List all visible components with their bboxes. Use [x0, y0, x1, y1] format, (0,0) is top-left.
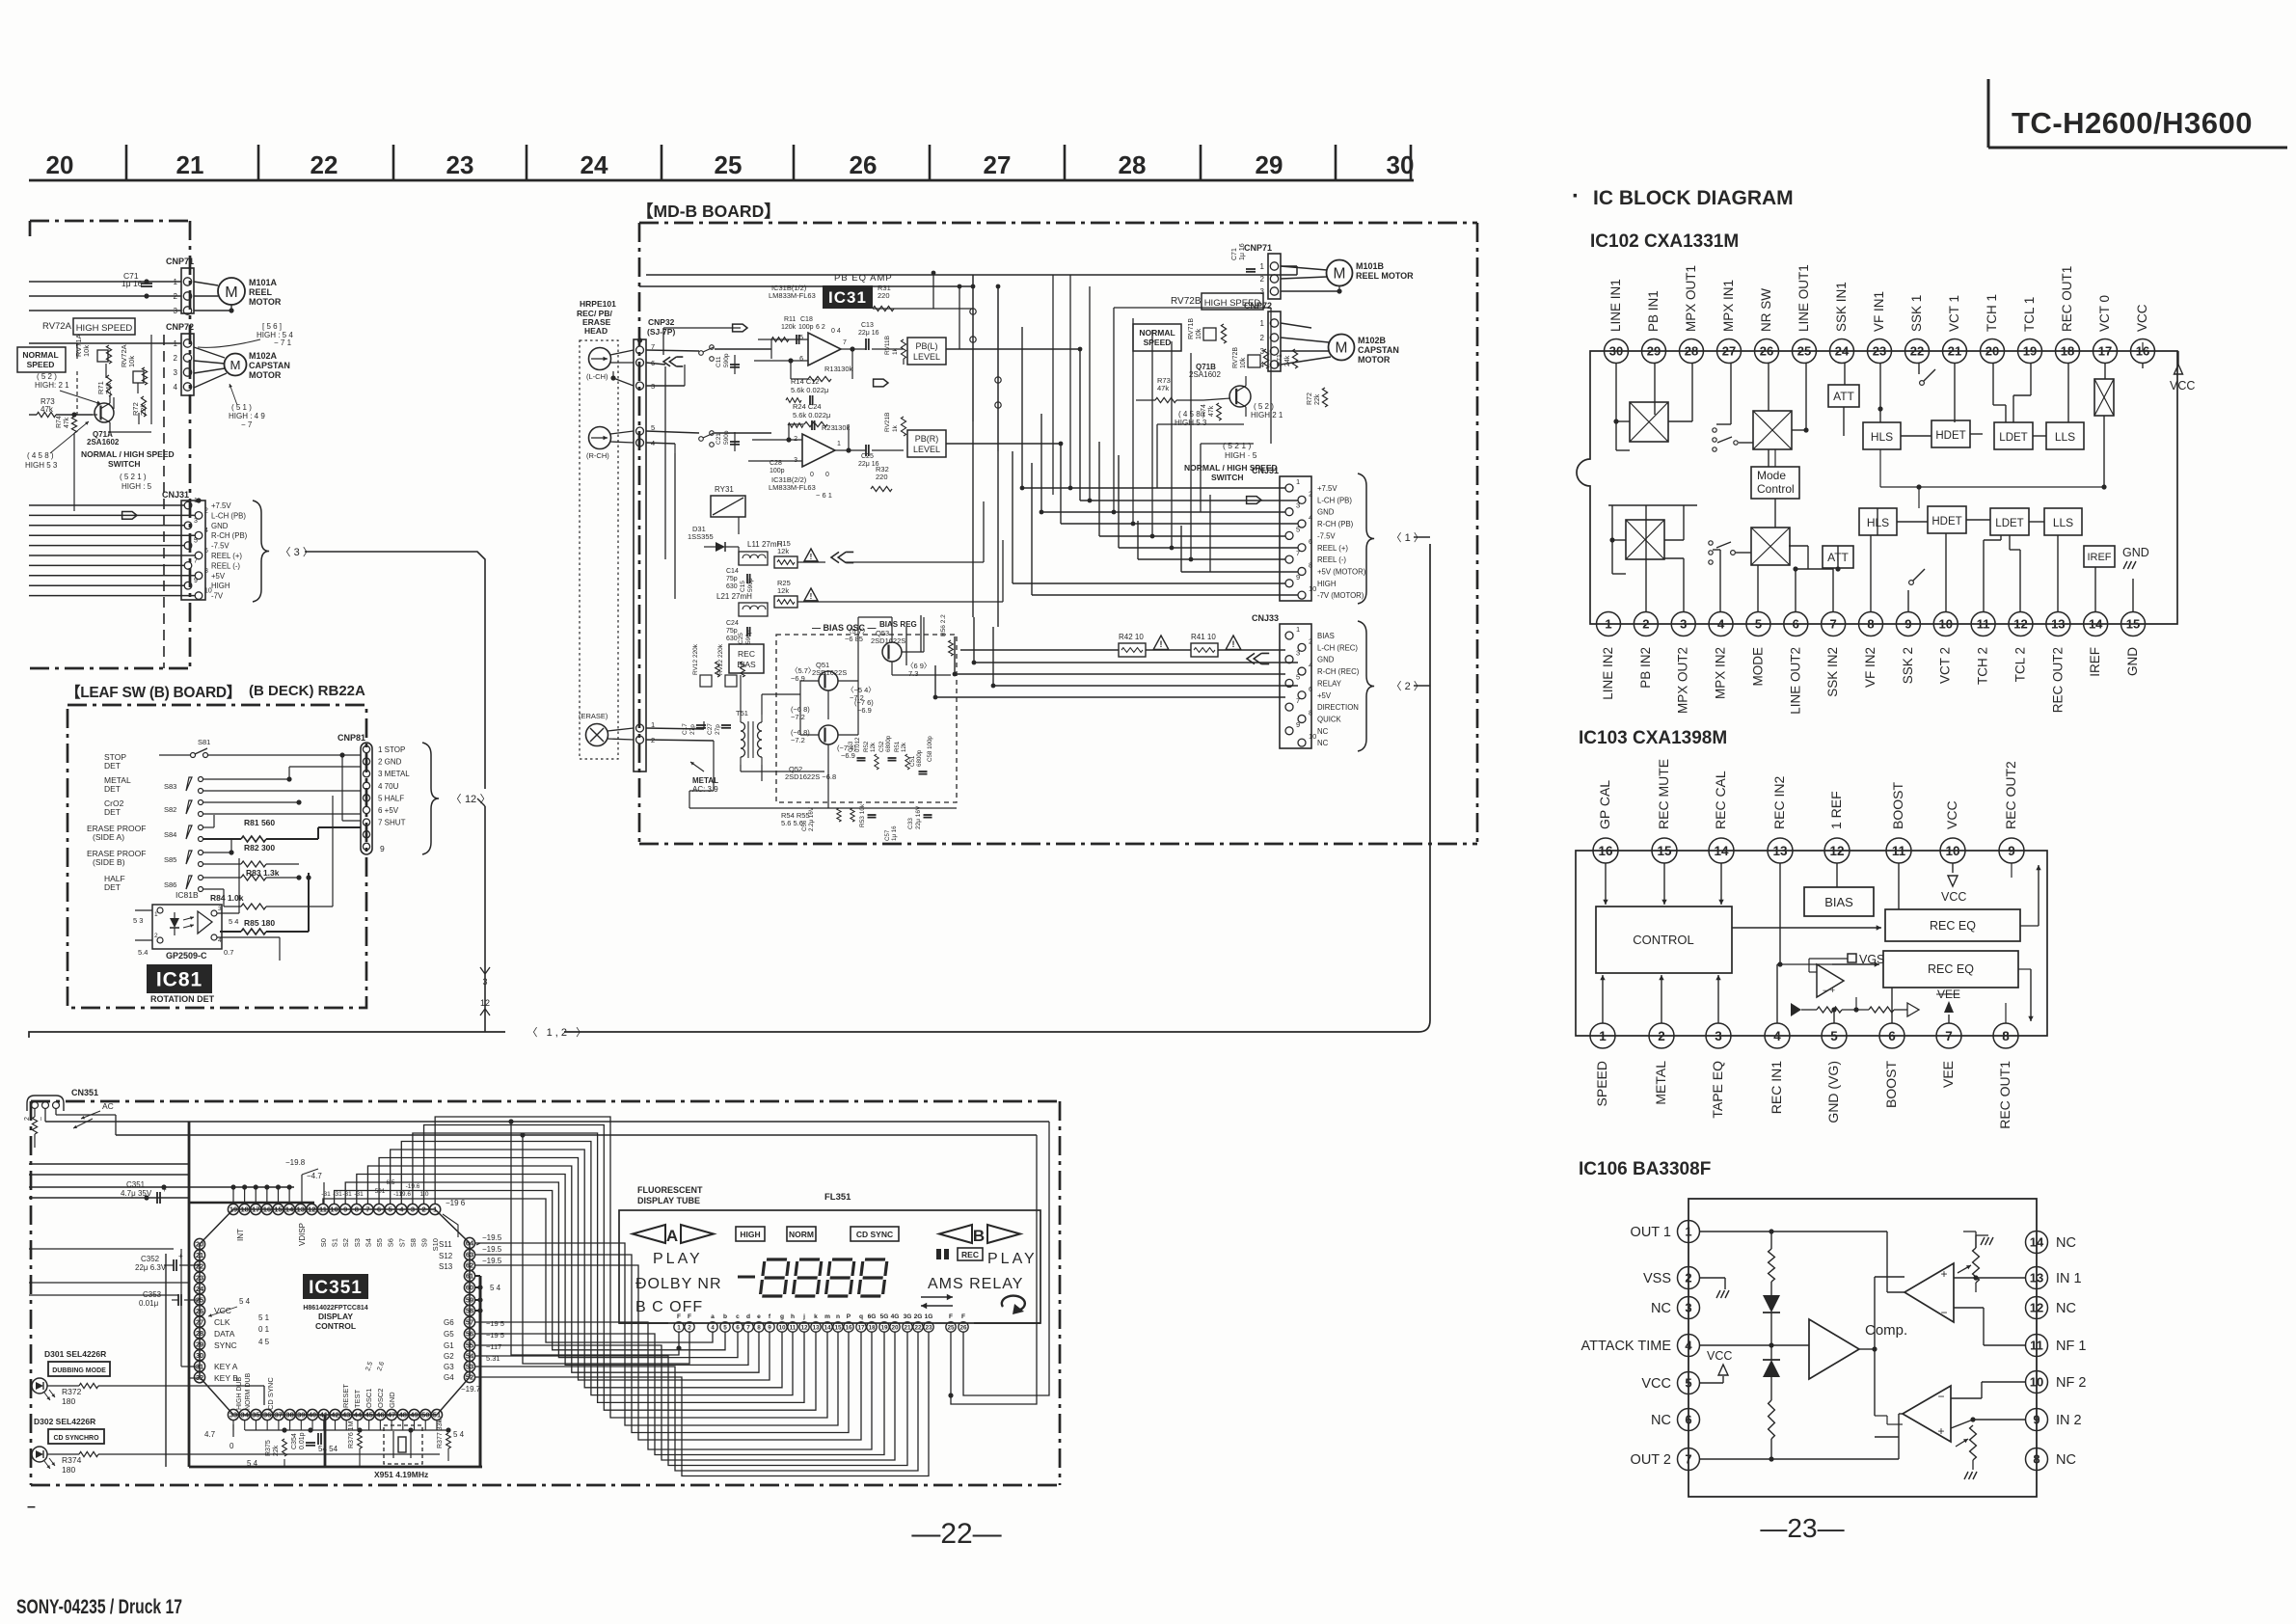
svg-text:35: 35 — [252, 1411, 259, 1420]
svg-text:2: 2 — [1685, 1271, 1691, 1286]
svg-text:L21 27mH: L21 27mH — [716, 592, 752, 601]
svg-text:CNP72: CNP72 — [1244, 301, 1272, 311]
svg-text:CNP71: CNP71 — [166, 257, 194, 266]
svg-text:25: 25 — [947, 1325, 955, 1332]
svg-text:M: M — [230, 358, 240, 372]
svg-text:VCC: VCC — [1641, 1376, 1671, 1392]
IC102 pin 9 — [1896, 612, 1920, 636]
svg-text:3: 3 — [1680, 617, 1687, 632]
IC351 pin 60 — [464, 1282, 474, 1292]
svg-text:2: 2 — [1309, 489, 1312, 498]
IC106 pin 2 — [1678, 1267, 1700, 1289]
svg-text:RY31: RY31 — [715, 485, 734, 494]
svg-text:48: 48 — [399, 1411, 407, 1420]
svg-text:11: 11 — [1977, 617, 1990, 632]
svg-text:C14: C14 — [726, 568, 739, 575]
svg-text:11: 11 — [319, 1205, 327, 1214]
IC351 pin 46 — [375, 1409, 386, 1420]
svg-text:C21: C21 — [716, 433, 722, 445]
IC102 pin 30 — [1605, 339, 1629, 364]
svg-text:−: − — [1937, 1390, 1944, 1403]
svg-text:28: 28 — [196, 1329, 203, 1338]
svg-text:− 6 1: − 6 1 — [816, 491, 832, 500]
IC351 pin 59 — [464, 1294, 474, 1305]
svg-text:63: 63 — [466, 1251, 473, 1259]
svg-text:−117: −117 — [486, 1342, 501, 1351]
svg-text:S9: S9 — [420, 1238, 429, 1247]
svg-text:R11: R11 — [784, 316, 796, 323]
IC351 pin 62 — [464, 1259, 474, 1270]
IC106 VSS ground — [1699, 1277, 1725, 1279]
svg-text:1 REF: 1 REF — [1828, 791, 1844, 829]
long bus wire <1,2> — [29, 1032, 505, 1038]
svg-text:4: 4 — [711, 1325, 715, 1332]
svg-text:S3: S3 — [353, 1238, 362, 1247]
wires from keys — [264, 1404, 270, 1406]
IC102 HLS block 1 — [1863, 422, 1901, 449]
bias section wires — [738, 547, 740, 565]
svg-text:− 7 1: − 7 1 — [274, 338, 292, 347]
svg-text:( 5 2 1 ): ( 5 2 1 ) — [120, 473, 147, 481]
svg-text:0.01p: 0.01p — [299, 1432, 306, 1449]
IC106 pin 9 — [2026, 1409, 2048, 1431]
svg-text:23: 23 — [1873, 344, 1886, 359]
svg-text:CD SYNCHRO: CD SYNCHRO — [53, 1435, 99, 1442]
svg-text:HIGH: HIGH — [1317, 580, 1337, 588]
svg-text:24: 24 — [1835, 344, 1850, 359]
svg-text:HIGH 5 3: HIGH 5 3 — [25, 461, 58, 470]
FL351 CD SYNC box — [851, 1227, 899, 1241]
svg-text:6: 6 — [204, 548, 208, 555]
svg-text:PB IN1: PB IN1 — [1646, 290, 1661, 332]
svg-text:27: 27 — [1722, 344, 1736, 359]
svg-text:−6 85: −6 85 — [845, 635, 863, 643]
svg-text:100p: 100p — [798, 324, 814, 331]
svg-text:X951 4.19MHz: X951 4.19MHz — [374, 1470, 428, 1479]
svg-text:5.6 5.6: 5.6 5.6 — [781, 819, 803, 827]
svg-text:27: 27 — [984, 150, 1012, 179]
IC103 gain slider — [1791, 1003, 1801, 1016]
svg-text:33: 33 — [230, 1411, 237, 1420]
svg-text:8: 8 — [1309, 560, 1312, 569]
svg-text:5.4: 5.4 — [138, 948, 148, 957]
svg-text:A: A — [666, 1227, 678, 1245]
svg-text:SSK 2: SSK 2 — [1901, 647, 1915, 684]
IC103 pin 15 — [1652, 838, 1677, 863]
svg-text:23: 23 — [446, 150, 474, 179]
svg-text:R41 10: R41 10 — [1191, 633, 1216, 641]
svg-text:OSC2: OSC2 — [376, 1389, 385, 1408]
svg-text:C24: C24 — [726, 620, 739, 627]
svg-text:+: + — [1937, 1424, 1944, 1438]
svg-text:62: 62 — [466, 1261, 473, 1270]
svg-text:8: 8 — [355, 1205, 359, 1214]
svg-text:12: 12 — [465, 794, 476, 805]
svg-text:( 4 5 8 ): ( 4 5 8 ) — [1178, 410, 1205, 419]
svg-text:4: 4 — [1685, 1339, 1692, 1353]
svg-text:14: 14 — [824, 1325, 831, 1332]
svg-text:S5: S5 — [375, 1238, 384, 1247]
IC102 ATT block 2 — [1823, 546, 1853, 568]
brace <2> — [1358, 621, 1374, 751]
svg-text:6: 6 — [1793, 617, 1799, 632]
svg-text:C53: C53 — [848, 741, 854, 752]
svg-text:130k: 130k — [834, 423, 851, 432]
svg-text:2: 2 — [1260, 275, 1265, 284]
IC102 pin 18 — [2056, 339, 2080, 364]
svg-text:GND: GND — [388, 1392, 396, 1408]
svg-text:-119.6: -119.6 — [393, 1191, 411, 1198]
vertical bus x1009 — [972, 275, 974, 421]
IC106 pin 12 — [2026, 1297, 2048, 1319]
svg-text:NORMAL: NORMAL — [22, 350, 58, 360]
IC351 pin 22 — [194, 1260, 204, 1271]
svg-text:S85: S85 — [164, 855, 176, 864]
svg-text:1: 1 — [837, 441, 841, 447]
IC351 pin 3 — [407, 1204, 418, 1214]
IC102 pin 26 — [1755, 339, 1779, 364]
IC102 body outline — [1577, 351, 1616, 624]
FL351 HIGH box — [736, 1227, 765, 1241]
svg-text:METAL: METAL — [1653, 1061, 1668, 1105]
svg-text:1: 1 — [677, 1325, 681, 1332]
IC106 diode D-a — [1770, 1282, 1772, 1295]
svg-text:4 70U: 4 70U — [378, 782, 399, 791]
IC102 pin 3 — [1671, 612, 1695, 636]
svg-text:〈: 〈 — [1391, 531, 1402, 544]
svg-text:S12: S12 — [439, 1252, 453, 1260]
svg-text:7.3: 7.3 — [908, 669, 918, 678]
IC102 pin 14 — [2084, 612, 2108, 636]
svg-text:10: 10 — [1945, 844, 1959, 858]
IC106 pin 5 — [1678, 1372, 1700, 1394]
IC106 pin4 wire — [1699, 1344, 1771, 1346]
svg-text:c: c — [736, 1313, 740, 1320]
svg-text:REEL (-): REEL (-) — [1317, 555, 1346, 564]
svg-text:Control: Control — [1757, 482, 1795, 496]
left edge risers from CNP32 — [664, 366, 666, 559]
svg-text:CNP72: CNP72 — [166, 322, 194, 332]
svg-text:TCH 2: TCH 2 — [1976, 647, 1990, 685]
svg-text:36: 36 — [263, 1411, 271, 1420]
FL351 loop arrow — [1002, 1296, 1025, 1310]
svg-text:12: 12 — [800, 1325, 808, 1332]
svg-text:12: 12 — [480, 998, 490, 1008]
svg-text:TCL 2: TCL 2 — [2012, 647, 2027, 682]
svg-text:M: M — [1336, 340, 1348, 357]
svg-text:C71: C71 — [1231, 248, 1238, 260]
IC103 pin 11 — [1886, 838, 1911, 863]
IC102 pin 27 — [1717, 339, 1742, 364]
IC102 LDET block 1 — [1994, 422, 2033, 449]
svg-text:G6: G6 — [444, 1318, 454, 1327]
svg-text:MPX OUT1: MPX OUT1 — [1684, 265, 1698, 332]
junction dots MD-B staircase — [1068, 486, 1073, 491]
svg-text:HDET: HDET — [1931, 516, 1961, 528]
IC106 feedback pot 2 — [1970, 1425, 1977, 1460]
IC102 pin 5 — [1746, 612, 1770, 636]
svg-text:PB(L): PB(L) — [915, 341, 937, 351]
svg-text:2: 2 — [154, 933, 158, 939]
svg-text:IC102 CXA1331M: IC102 CXA1331M — [1590, 231, 1739, 252]
svg-text:BOOST: BOOST — [1890, 782, 1905, 829]
svg-text:56: 56 — [466, 1330, 473, 1339]
svg-text:HIGH DUB: HIGH DUB — [236, 1376, 243, 1410]
svg-text:26: 26 — [1760, 344, 1773, 359]
svg-text:S4: S4 — [364, 1238, 372, 1247]
svg-text:REC OUT1: REC OUT1 — [2060, 266, 2074, 332]
IC102 amp block A2 — [1626, 520, 1664, 559]
opamp input wires — [758, 338, 808, 340]
svg-text:S2: S2 — [341, 1238, 350, 1247]
junction dots CNJ33 wires — [972, 661, 977, 665]
svg-text:22: 22 — [196, 1262, 203, 1271]
svg-text:L-CH (PB): L-CH (PB) — [1317, 496, 1352, 504]
svg-text:CNP32: CNP32 — [648, 317, 675, 327]
IC351 pin 40 — [307, 1409, 317, 1420]
svg-text:SWITCH: SWITCH — [108, 459, 141, 469]
svg-text:22μ 16V: 22μ 16V — [915, 805, 922, 829]
svg-text:55: 55 — [466, 1341, 473, 1350]
svg-text:T51: T51 — [736, 709, 748, 717]
svg-text:-7.5V: -7.5V — [1317, 531, 1336, 540]
head unit dotted outline — [580, 340, 618, 759]
extra MD-B bus wires — [972, 421, 974, 617]
IC102 Mode Control block — [1751, 467, 1799, 499]
svg-text:4: 4 — [1309, 661, 1312, 669]
svg-text:5: 5 — [723, 1325, 727, 1332]
svg-text:26: 26 — [959, 1325, 967, 1332]
svg-text:+7.5V: +7.5V — [1317, 484, 1337, 493]
svg-text:44: 44 — [354, 1411, 363, 1420]
svg-text:NF 2: NF 2 — [2056, 1375, 2086, 1391]
svg-text:OUT 2: OUT 2 — [1631, 1452, 1671, 1468]
IC351 pin 55 — [464, 1340, 474, 1350]
switch contacts near CNP32 R — [699, 437, 704, 442]
svg-text:−19.7: −19.7 — [461, 1385, 481, 1394]
svg-text:ĐOLBY NR: ĐOLBY NR — [635, 1276, 722, 1292]
svg-text:LLS: LLS — [2055, 430, 2075, 444]
svg-text:21: 21 — [1948, 344, 1961, 359]
svg-text:26: 26 — [196, 1307, 203, 1315]
svg-text:M101A: M101A — [249, 278, 278, 287]
svg-text:MPX IN1: MPX IN1 — [1721, 280, 1736, 332]
svg-text:C25: C25 — [738, 633, 744, 644]
FL351 pause bars — [936, 1249, 941, 1259]
svg-text:DET: DET — [104, 784, 121, 794]
svg-text:7: 7 — [194, 557, 198, 564]
svg-text:61: 61 — [466, 1272, 473, 1281]
IC106 pin 3 — [1678, 1297, 1700, 1319]
svg-text:12k: 12k — [901, 742, 907, 752]
svg-text:NF 1: NF 1 — [2056, 1339, 2086, 1354]
svg-text:S82: S82 — [164, 805, 176, 814]
IC351 pin 13 — [295, 1204, 306, 1214]
IC103 pin 6 — [1879, 1023, 1904, 1048]
PB R out wire — [946, 443, 1061, 445]
svg-text:( 5 1 ): ( 5 1 ) — [231, 403, 252, 412]
svg-text:3: 3 — [1260, 347, 1265, 356]
IC351 pin 32 — [194, 1372, 204, 1383]
svg-text:9: 9 — [194, 578, 198, 584]
svg-text:FLUORESCENT: FLUORESCENT — [637, 1185, 703, 1195]
IC102 pin 15 — [2121, 612, 2146, 636]
svg-text:VF IN2: VF IN2 — [1863, 647, 1877, 688]
svg-text:34: 34 — [241, 1411, 250, 1420]
IC102 pin 8 — [1859, 612, 1883, 636]
svg-text:TC-H2600/H3600: TC-H2600/H3600 — [2012, 106, 2253, 140]
IC102 pin 24 — [1830, 339, 1854, 364]
svg-text:100p: 100p — [770, 468, 785, 474]
svg-text:AC: AC — [102, 1101, 114, 1111]
svg-text:16: 16 — [845, 1325, 852, 1332]
svg-text:R-CH (PB): R-CH (PB) — [211, 531, 248, 540]
input arrows — [733, 324, 747, 332]
svg-text:13: 13 — [297, 1205, 305, 1214]
svg-text:RV72A: RV72A — [42, 321, 72, 332]
IC102 pin 7 — [1822, 612, 1846, 636]
op-amp IC31B 1/2 — [808, 333, 841, 365]
svg-text:(SIDE B): (SIDE B) — [93, 857, 125, 867]
svg-text:+5V: +5V — [1317, 691, 1332, 700]
svg-text:L-CH (REC): L-CH (REC) — [1317, 643, 1358, 652]
svg-text:22: 22 — [914, 1325, 922, 1332]
svg-text:IC BLOCK DIAGRAM: IC BLOCK DIAGRAM — [1593, 187, 1794, 209]
svg-text:HLS: HLS — [1871, 430, 1893, 444]
svg-text:20: 20 — [196, 1240, 203, 1249]
svg-text:OSC1: OSC1 — [365, 1389, 373, 1408]
svg-text:9: 9 — [1296, 573, 1300, 582]
svg-text:VCT 2: VCT 2 — [1938, 647, 1953, 684]
svg-text:9: 9 — [343, 1205, 347, 1214]
svg-text:37: 37 — [275, 1411, 283, 1420]
wire mesh leaf board — [288, 767, 290, 779]
svg-text:GND: GND — [2122, 546, 2149, 559]
svg-text:NC: NC — [2056, 1235, 2076, 1251]
svg-text:3: 3 — [1685, 1301, 1691, 1315]
svg-text:15: 15 — [834, 1325, 842, 1332]
IC103 pin 14 — [1709, 838, 1734, 863]
svg-text:9: 9 — [2033, 1413, 2039, 1427]
svg-text:IC351: IC351 — [309, 1278, 363, 1298]
svg-text:3: 3 — [194, 518, 198, 525]
wires into CNJ33 — [974, 662, 1298, 663]
svg-text:19: 19 — [2023, 344, 2037, 359]
svg-text:BOOST: BOOST — [1883, 1061, 1899, 1108]
svg-text:13: 13 — [2030, 1271, 2043, 1286]
svg-text:SSK IN2: SSK IN2 — [1825, 647, 1840, 697]
svg-text:47k: 47k — [1157, 384, 1169, 392]
svg-text:2: 2 — [421, 1205, 425, 1214]
svg-text:2G: 2G — [914, 1313, 923, 1320]
erase head wires to bias — [645, 730, 647, 732]
svg-text:3: 3 — [1296, 501, 1300, 510]
svg-text:CONTROL: CONTROL — [315, 1321, 356, 1331]
IC106 pin13 junction — [1976, 1277, 2026, 1279]
IC351 pin 41 — [318, 1409, 329, 1420]
IC106 body outline — [1688, 1199, 2037, 1497]
svg-text:29: 29 — [1647, 344, 1661, 359]
svg-text:M102A: M102A — [249, 351, 278, 361]
IC351 pin 57 — [464, 1316, 474, 1327]
svg-text:B: B — [973, 1227, 985, 1245]
page title TC-H2600/H3600 — [1987, 79, 1990, 148]
IC103 REC EQ block 1 — [1885, 909, 2020, 941]
IC102 pin 17 — [2093, 339, 2118, 364]
IC351 pin 52 — [464, 1371, 474, 1382]
IC351 pin 33 — [228, 1409, 238, 1420]
IC102 NR amp block A4 — [1751, 528, 1790, 565]
svg-text:6 +5V: 6 +5V — [378, 806, 399, 815]
svg-text:3: 3 — [1715, 1029, 1722, 1043]
svg-text:ATTACK TIME: ATTACK TIME — [1581, 1339, 1672, 1354]
svg-text:S7: S7 — [397, 1238, 406, 1247]
IC103 internal wires — [1605, 863, 1607, 905]
FL351 direction arrows — [921, 1296, 953, 1298]
svg-text:DIRECTION: DIRECTION — [1317, 703, 1359, 712]
IC351 pin 28 — [194, 1328, 204, 1339]
svg-text:REC OUT2: REC OUT2 — [2003, 761, 2018, 829]
svg-text:CNP81: CNP81 — [338, 733, 365, 743]
IC102 pin 16 — [2131, 339, 2155, 364]
IC351 pin 54 — [464, 1350, 474, 1361]
svg-text:LDET: LDET — [1995, 518, 2023, 529]
svg-text:18: 18 — [868, 1325, 876, 1332]
IC103 pin 16 — [1593, 838, 1618, 863]
svg-text:GND (VG): GND (VG) — [1825, 1061, 1841, 1123]
svg-text:–: – — [38, 1117, 44, 1121]
svg-text:R85 180: R85 180 — [244, 918, 275, 928]
svg-text:C11: C11 — [716, 356, 722, 367]
IC351 pin 64 — [464, 1237, 474, 1248]
svg-text:MPX IN2: MPX IN2 — [1714, 647, 1728, 699]
svg-text:SSK 1: SSK 1 — [1909, 295, 1924, 332]
svg-text:25: 25 — [715, 150, 743, 179]
svg-text:52: 52 — [466, 1373, 473, 1382]
svg-text:10: 10 — [778, 1325, 786, 1332]
svg-text:0 1: 0 1 — [258, 1325, 270, 1334]
svg-text:22: 22 — [311, 150, 338, 179]
svg-text:R51: R51 — [894, 741, 901, 752]
IC106 pin 6 — [1678, 1409, 1700, 1431]
IC351 pin 24 — [194, 1283, 204, 1293]
svg-text:RESET: RESET — [341, 1384, 350, 1408]
svg-text:2: 2 — [1309, 636, 1312, 645]
crystal X951 4.19MHz — [384, 1425, 422, 1464]
svg-text:64: 64 — [466, 1239, 474, 1248]
svg-text:LEVEL: LEVEL — [913, 352, 940, 362]
IC102 VCC arrow — [2174, 365, 2183, 374]
IC102 pin 12 — [2009, 612, 2033, 636]
svg-text:−19.5: −19.5 — [482, 1257, 502, 1265]
svg-text:2 GND: 2 GND — [378, 758, 402, 767]
IC103 pin 9 — [1999, 838, 2024, 863]
svg-text:AMS RELAY: AMS RELAY — [928, 1276, 1023, 1292]
IC103 pin 3 — [1706, 1023, 1731, 1048]
svg-text:G4: G4 — [444, 1373, 454, 1382]
IC102 pin 2 — [1634, 612, 1658, 636]
svg-text:LEVEL: LEVEL — [913, 445, 940, 454]
svg-text:5: 5 — [1296, 525, 1300, 533]
svg-text:-31: -31 — [342, 1191, 352, 1198]
svg-text:8: 8 — [2002, 1029, 2010, 1043]
IC102 VCT0 attenuator — [2094, 379, 2114, 416]
svg-text:2: 2 — [24, 1117, 31, 1121]
svg-text:15: 15 — [1657, 844, 1672, 858]
stub rail pins 19-14 — [189, 1186, 294, 1188]
svg-text:R14 C12: R14 C12 — [791, 377, 820, 386]
svg-text:5: 5 — [1755, 617, 1762, 632]
